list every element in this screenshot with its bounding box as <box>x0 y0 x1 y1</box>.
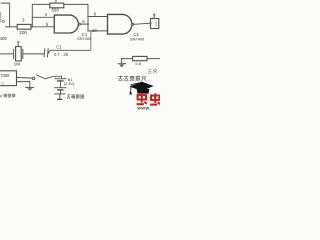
text 今夜设开关 <box>118 76 122 81</box>
ground under battery <box>54 93 65 95</box>
svg-text:0: 0 <box>2 82 4 86</box>
svg-text:10: 10 <box>92 28 97 33</box>
wire <box>23 53 45 55</box>
text 三尺 <box>148 70 152 73</box>
wire to resistor 5.6 <box>121 59 132 64</box>
wire after cap <box>48 50 91 53</box>
wire pin10 <box>88 30 108 32</box>
ground left <box>25 87 34 89</box>
top feedback wire <box>32 3 50 5</box>
svg-text:C1: C1 <box>56 45 62 50</box>
gate U3 bubble <box>132 23 134 25</box>
svg-text:4.7: 4.7 <box>54 52 60 57</box>
gate U2 bubble <box>78 23 80 25</box>
resistor R 5.6 <box>133 56 147 60</box>
battery B1 cell2 <box>54 87 66 89</box>
output box <box>151 19 159 29</box>
gate U3 body <box>108 14 132 34</box>
switch arm <box>36 75 45 79</box>
wire pin9 <box>88 16 108 18</box>
resistor R3 200 <box>17 24 31 29</box>
svg-text:(2.4V): (2.4V) <box>64 81 75 86</box>
svg-text:400: 400 <box>0 36 7 41</box>
junction dots <box>9 16 152 32</box>
svg-text:WWW.: WWW. <box>137 106 150 110</box>
text 水银电池 <box>67 94 71 98</box>
svg-text:SN7400: SN7400 <box>130 37 145 42</box>
arrow up from output box <box>153 14 155 19</box>
tick above crystal <box>17 42 19 46</box>
ground right <box>118 63 127 65</box>
glyph inside output box <box>155 21 157 27</box>
wire <box>64 3 88 5</box>
gate U2 output wire <box>80 23 88 25</box>
terminal circle in left box <box>2 20 4 22</box>
svg-text:3: 3 <box>22 18 25 23</box>
node input of gate <box>31 4 33 26</box>
gate U3 output wire <box>134 23 151 24</box>
wire pin5 <box>32 26 54 28</box>
switch S1 circle <box>32 77 35 80</box>
svg-text:25: 25 <box>63 52 68 57</box>
wire <box>5 26 17 28</box>
wire from regulator to switch <box>17 76 33 79</box>
regulator box <box>0 71 17 86</box>
capacitor C1 plates <box>43 48 46 57</box>
svg-text:1M: 1M <box>14 62 20 67</box>
logo graduation cap <box>130 82 154 95</box>
bottom wire left <box>0 53 14 55</box>
wire to battery <box>45 76 61 79</box>
svg-text:5.6: 5.6 <box>135 61 141 66</box>
op gate U2 body <box>54 15 78 33</box>
node output of gate U2 <box>87 4 89 31</box>
svg-text:SN7400: SN7400 <box>77 36 92 41</box>
wire <box>31 26 32 28</box>
svg-text:7309: 7309 <box>0 73 10 78</box>
svg-text:200: 200 <box>19 30 27 35</box>
svg-text:560: 560 <box>52 8 60 13</box>
wire battery to ground <box>59 90 61 94</box>
crystal X1 box <box>16 47 22 61</box>
wire right of resistor <box>147 58 160 60</box>
crystal X1 plates <box>13 49 15 59</box>
svg-text:V: V <box>0 93 3 98</box>
resistor R2 560 <box>50 3 64 8</box>
battery stem <box>59 81 61 88</box>
battery B1 cell1 <box>55 78 67 80</box>
vertical from cap wire to pin10 node <box>90 31 92 50</box>
wire regulator bottom to ground <box>17 82 30 88</box>
logo red text <box>137 93 147 104</box>
left input box <box>1 3 10 27</box>
wire pin4 <box>32 16 54 18</box>
